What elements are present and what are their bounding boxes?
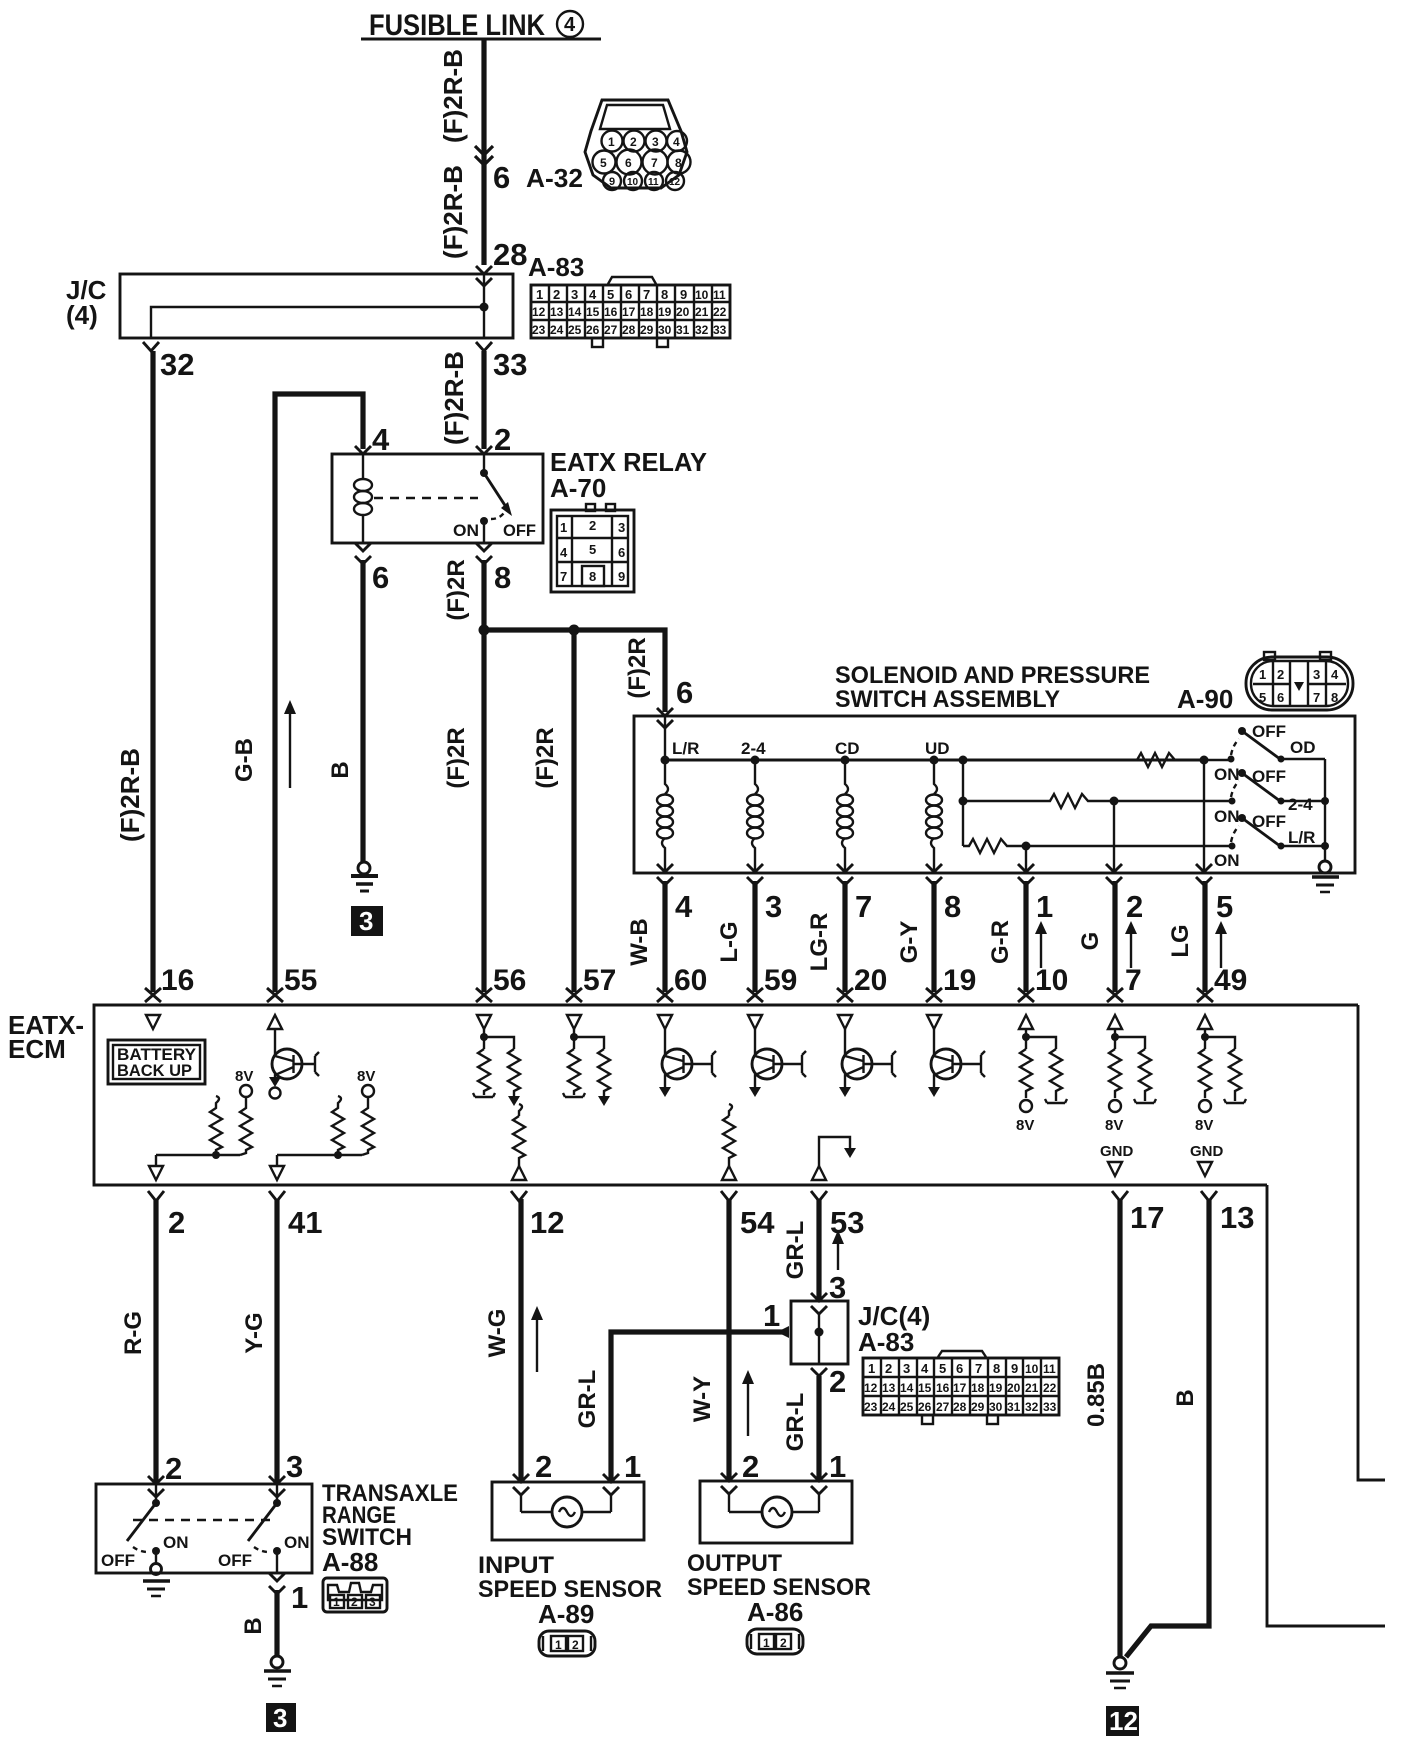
svg-text:26: 26 — [918, 1400, 932, 1414]
node triangle pin60 — [658, 1015, 672, 1029]
svg-text:32: 32 — [695, 323, 709, 337]
svg-text:2: 2 — [168, 1205, 185, 1240]
svg-text:A-88: A-88 — [322, 1547, 378, 1577]
svg-text:7: 7 — [855, 889, 872, 924]
svg-text:12: 12 — [532, 305, 546, 319]
svg-text:(F)2R: (F)2R — [443, 559, 470, 620]
svg-text:5: 5 — [1216, 889, 1233, 924]
node pin53 internal hook — [812, 1137, 856, 1180]
svg-text:26: 26 — [586, 323, 600, 337]
resistor group pin56 — [473, 1029, 520, 1106]
svg-text:3: 3 — [286, 1449, 303, 1484]
svg-text:(F)2R-B: (F)2R-B — [439, 351, 469, 445]
node wire 55 end cross — [267, 988, 283, 1002]
svg-text:OFF: OFF — [503, 521, 536, 540]
wire R-G pin2 to transaxle switch — [153, 1199, 158, 1484]
svg-text:10: 10 — [627, 177, 639, 188]
svg-text:5: 5 — [589, 542, 596, 557]
connector icon A-86 — [747, 1629, 803, 1654]
svg-text:W-G: W-G — [484, 1309, 511, 1358]
svg-text:30: 30 — [989, 1400, 1003, 1414]
ECM EATX-ECM box outline — [94, 1005, 1358, 1185]
node J/C bottom exit — [811, 1368, 827, 1376]
solenoid coil UD — [926, 760, 942, 873]
svg-text:33: 33 — [713, 323, 727, 337]
node GND pin17 — [1100, 1143, 1134, 1176]
node dot RB — [334, 1151, 342, 1159]
label EATX-ECM — [8, 1010, 84, 1064]
svg-text:6: 6 — [1277, 690, 1284, 705]
svg-text:30: 30 — [658, 323, 672, 337]
svg-text:6: 6 — [625, 287, 632, 302]
svg-text:L-G: L-G — [716, 921, 743, 962]
svg-text:B: B — [327, 761, 354, 778]
svg-text:4: 4 — [372, 422, 390, 457]
resistor group pin57 — [563, 1029, 610, 1106]
resistor OD row — [1133, 753, 1179, 767]
wire W-B — [662, 881, 667, 992]
svg-text:1: 1 — [1259, 667, 1266, 682]
svg-text:3: 3 — [369, 1595, 376, 1609]
label TRANSAXLE RANGE SWITCH A-88 — [322, 1480, 458, 1577]
wire L/R row right — [1011, 845, 1232, 847]
pressure switch 2-4 — [1214, 767, 1325, 826]
svg-text:GND: GND — [1190, 1143, 1224, 1160]
svg-text:1: 1 — [624, 1449, 641, 1484]
solenoid coil 2-4 — [747, 760, 763, 873]
relay switch — [453, 454, 536, 543]
wire RA bottom to pin2 — [156, 1154, 240, 1156]
wire LG-R — [842, 881, 847, 992]
ground bottom right — [1106, 1657, 1134, 1688]
svg-text:2: 2 — [630, 135, 637, 149]
svg-text:5: 5 — [607, 287, 614, 302]
svg-text:55: 55 — [284, 964, 317, 997]
svg-text:24: 24 — [550, 323, 564, 337]
svg-text:4: 4 — [560, 545, 568, 560]
svg-text:G-Y: G-Y — [896, 921, 923, 964]
wire pin1 vertical — [1025, 846, 1027, 873]
svg-text:G-R: G-R — [987, 920, 1014, 964]
transistor Q60 — [659, 1029, 716, 1097]
node triangle pin16 — [146, 1015, 160, 1029]
svg-text:GR-L: GR-L — [782, 1221, 809, 1280]
svg-text:8V: 8V — [1016, 1117, 1034, 1134]
ground below switch pin1 — [264, 1656, 291, 1686]
svg-text:R-G: R-G — [120, 1311, 147, 1355]
svg-text:27: 27 — [936, 1400, 950, 1414]
node SW2 exit pin1 — [269, 1573, 285, 1594]
svg-text:10: 10 — [1035, 964, 1068, 997]
svg-text:8: 8 — [589, 569, 596, 584]
wire pressure switch right bus — [1324, 759, 1326, 861]
wire from J/C 32 down to ECM 16 — [150, 351, 155, 992]
svg-text:7: 7 — [643, 287, 650, 302]
wire from J/C 33 down to relay pin 2 — [481, 351, 486, 449]
svg-text:ON: ON — [453, 521, 479, 540]
svg-text:8V: 8V — [1105, 1117, 1123, 1134]
input speed sensor box — [492, 1474, 644, 1540]
resistor RB2 — [362, 1097, 374, 1155]
node triangle pin2 bottom — [149, 1155, 163, 1180]
resistor pin12 column — [512, 1104, 526, 1180]
transistor Q55 — [269, 1029, 319, 1099]
node page reference 3 (top) — [351, 906, 383, 936]
svg-text:A-83: A-83 — [528, 252, 584, 282]
node dot row2 left — [959, 797, 968, 806]
svg-text:A-32: A-32 — [526, 163, 583, 193]
svg-text:OD: OD — [1290, 738, 1316, 757]
svg-text:22: 22 — [1043, 1381, 1057, 1395]
svg-text:CD: CD — [835, 739, 860, 758]
svg-text:3: 3 — [359, 906, 373, 936]
svg-text:6: 6 — [956, 1361, 963, 1376]
svg-text:(F)2R-B: (F)2R-B — [438, 49, 468, 143]
resistor RA2 — [240, 1097, 252, 1155]
node arrow into J/C — [777, 1326, 789, 1338]
node triangle pin57 — [567, 1015, 581, 1029]
svg-text:6: 6 — [625, 156, 632, 170]
node dot pin5 junction — [1200, 756, 1209, 765]
svg-text:3: 3 — [765, 889, 782, 924]
wire B to ground — [274, 1590, 279, 1656]
connector icon A-89 — [539, 1631, 595, 1656]
svg-text:3: 3 — [273, 1703, 287, 1733]
wire B from relay 6 to ground — [360, 560, 365, 862]
svg-text:8: 8 — [944, 889, 961, 924]
svg-text:2: 2 — [165, 1451, 182, 1486]
svg-text:15: 15 — [918, 1381, 932, 1395]
wire OD row right — [1179, 759, 1231, 761]
wire G-R — [1023, 881, 1028, 992]
svg-text:9: 9 — [609, 176, 615, 188]
svg-text:2: 2 — [1277, 667, 1284, 682]
svg-text:20: 20 — [854, 964, 887, 997]
svg-text:8V: 8V — [357, 1068, 375, 1085]
node ECM bottom exits forks — [148, 1191, 1217, 1201]
svg-text:UD: UD — [925, 739, 950, 758]
node triangle pin19 — [927, 1015, 941, 1029]
switch dashed link — [133, 1519, 270, 1521]
node triangle pin20 — [838, 1015, 852, 1029]
svg-text:1: 1 — [291, 1580, 308, 1615]
svg-text:16: 16 — [936, 1381, 950, 1395]
svg-text:1: 1 — [829, 1449, 846, 1484]
svg-text:10: 10 — [695, 288, 709, 302]
wire GR-L input sensor pin1 to J/C — [611, 1332, 788, 1482]
svg-text:13: 13 — [550, 305, 564, 319]
node solenoid pin 6 entry — [657, 708, 673, 728]
svg-text:12: 12 — [669, 177, 681, 188]
wire RB bottom to pin41 — [277, 1154, 362, 1156]
node triangle pin56 — [477, 1015, 491, 1029]
svg-text:11: 11 — [648, 177, 659, 188]
svg-text:3: 3 — [652, 135, 659, 149]
svg-text:12: 12 — [1109, 1706, 1138, 1736]
svg-text:9: 9 — [680, 287, 687, 302]
svg-text:SOLENOID AND PRESSURE: SOLENOID AND PRESSURE — [835, 662, 1150, 689]
node triangle pin10 — [1019, 1015, 1033, 1029]
wire 57 down to ECM — [571, 630, 576, 992]
svg-text:10: 10 — [1025, 1362, 1039, 1376]
node page reference 3 (bottom) — [266, 1703, 296, 1733]
node triangle pin55 — [268, 1015, 282, 1029]
wire G — [1112, 881, 1117, 992]
node dot pin2 junction — [1110, 797, 1119, 806]
node junction dot relay8 — [479, 625, 490, 636]
resistor group pin49 — [1195, 1029, 1246, 1134]
svg-text:7: 7 — [651, 156, 658, 170]
node direction arrow beside G-B — [284, 700, 296, 788]
svg-text:49: 49 — [1214, 964, 1247, 997]
node junction dot in J/C — [480, 303, 489, 312]
svg-text:(F)2R: (F)2R — [443, 727, 470, 788]
svg-text:A-90: A-90 — [1177, 684, 1233, 714]
svg-text:A-86: A-86 — [747, 1597, 803, 1627]
node J/C pin 33 exit — [476, 342, 492, 351]
svg-text:33: 33 — [493, 347, 527, 382]
svg-text:Y-G: Y-G — [241, 1312, 268, 1353]
svg-text:20: 20 — [676, 305, 690, 319]
label INPUT SPEED SENSOR A-89 — [478, 1552, 662, 1629]
svg-text:14: 14 — [568, 305, 582, 319]
wire B pin13 — [1126, 1199, 1209, 1657]
svg-text:7: 7 — [560, 569, 567, 584]
svg-text:1: 1 — [763, 1636, 770, 1650]
svg-text:(F)2R-B: (F)2R-B — [438, 165, 468, 259]
svg-text:2: 2 — [351, 1595, 358, 1609]
wire G-Y — [931, 881, 936, 992]
svg-text:1: 1 — [333, 1595, 340, 1609]
wire L-G — [752, 881, 757, 992]
connector icon A-90 — [1246, 652, 1353, 710]
wire pressure switch vertical left — [962, 760, 964, 846]
junction connector J/C(4) A-83 box (bottom) — [791, 1293, 930, 1364]
svg-text:1: 1 — [555, 1638, 562, 1652]
svg-text:ON: ON — [1214, 851, 1240, 870]
svg-text:A-89: A-89 — [538, 1599, 594, 1629]
svg-text:G-B: G-B — [231, 738, 258, 782]
wire from relay 8 down with junction — [481, 560, 486, 992]
solenoid coil L/R — [657, 760, 673, 873]
relay coil — [354, 454, 372, 543]
svg-text:2-4: 2-4 — [741, 739, 766, 758]
node FUSIBLE LINK 4 title — [361, 9, 601, 42]
resistor L/R row — [963, 839, 1011, 853]
svg-text:8: 8 — [661, 287, 668, 302]
svg-text:16: 16 — [604, 305, 618, 319]
svg-text:4: 4 — [673, 135, 680, 149]
svg-text:SWITCH ASSEMBLY: SWITCH ASSEMBLY — [835, 686, 1060, 713]
ECM battery back up box — [108, 1040, 205, 1084]
node page reference 12 — [1106, 1706, 1139, 1736]
node wire 16 end cross — [145, 988, 161, 1002]
pressure switch OD — [1214, 722, 1325, 784]
svg-text:18: 18 — [971, 1381, 985, 1395]
svg-text:54: 54 — [740, 1205, 775, 1240]
wire 0.85B pin17 to ground — [1117, 1199, 1122, 1657]
svg-text:0.85B: 0.85B — [1083, 1363, 1110, 1427]
transistor Q20 — [839, 1029, 896, 1097]
transistor Q19 — [928, 1029, 985, 1097]
svg-text:25: 25 — [568, 323, 582, 337]
svg-text:19: 19 — [658, 305, 672, 319]
svg-text:19: 19 — [943, 964, 976, 997]
svg-text:ON: ON — [1214, 807, 1240, 826]
svg-text:9: 9 — [618, 569, 625, 584]
node dot RA — [212, 1151, 220, 1159]
node arrow beside LG — [1215, 921, 1227, 968]
svg-text:25: 25 — [900, 1400, 914, 1414]
svg-text:INPUT: INPUT — [478, 1552, 554, 1579]
resistor pin54 column — [722, 1104, 736, 1180]
svg-text:6: 6 — [618, 545, 625, 560]
svg-text:1: 1 — [536, 287, 543, 302]
svg-text:5: 5 — [1259, 690, 1266, 705]
transistor Q59 — [749, 1029, 806, 1097]
svg-text:1: 1 — [1036, 889, 1053, 924]
svg-text:(F)2R-B: (F)2R-B — [115, 748, 145, 842]
svg-text:(4): (4) — [66, 300, 98, 330]
svg-text:L/R: L/R — [1288, 828, 1315, 847]
svg-text:56: 56 — [493, 964, 526, 997]
wire ECM bottom off-page — [1267, 1185, 1385, 1626]
node 8V circle B — [362, 1085, 374, 1097]
svg-text:13: 13 — [1220, 1200, 1254, 1235]
ground SW1 — [143, 1564, 170, 1597]
wire Y-G pin41 to transaxle switch — [274, 1199, 279, 1484]
svg-text:6: 6 — [493, 160, 510, 195]
node relay pin 6 exit — [355, 543, 371, 564]
svg-text:A-70: A-70 — [550, 473, 606, 503]
svg-text:3: 3 — [618, 520, 625, 535]
svg-text:21: 21 — [695, 305, 709, 319]
wire 2-4 row — [963, 800, 1046, 802]
svg-text:3: 3 — [1313, 667, 1320, 682]
svg-text:W-Y: W-Y — [689, 1376, 716, 1422]
wire junction horizontal to solenoid — [484, 630, 665, 712]
svg-text:OFF: OFF — [218, 1551, 252, 1570]
svg-text:20: 20 — [1007, 1381, 1021, 1395]
svg-text:4: 4 — [921, 1361, 929, 1376]
svg-text:60: 60 — [674, 964, 707, 997]
svg-text:G: G — [1077, 932, 1104, 951]
svg-text:11: 11 — [1043, 1362, 1056, 1376]
wire ECM right edge off-page — [1358, 1005, 1385, 1480]
svg-text:1: 1 — [560, 520, 567, 535]
node arrow beside G-R — [1035, 921, 1047, 968]
svg-text:41: 41 — [288, 1205, 322, 1240]
svg-text:2: 2 — [1126, 889, 1143, 924]
pressure switch L/R — [1214, 812, 1325, 870]
svg-text:2: 2 — [572, 1638, 579, 1652]
svg-text:1: 1 — [868, 1361, 875, 1376]
node dot pin1 junction — [1022, 842, 1031, 851]
svg-text:18: 18 — [640, 305, 654, 319]
svg-text:2: 2 — [885, 1361, 892, 1376]
wire GR-L pin53 to J/C — [816, 1199, 821, 1301]
resistor RA1 — [210, 1096, 222, 1153]
svg-text:OFF: OFF — [101, 1551, 135, 1570]
svg-text:2: 2 — [589, 518, 596, 533]
svg-text:8V: 8V — [1195, 1117, 1213, 1134]
svg-text:17: 17 — [953, 1381, 967, 1395]
node solenoid exits row — [657, 864, 1212, 885]
node GND pin13 — [1190, 1143, 1224, 1176]
svg-text:32: 32 — [160, 347, 194, 382]
transaxle range switch box — [96, 1476, 312, 1573]
wire pin5 vertical — [1203, 760, 1205, 873]
svg-text:5: 5 — [939, 1361, 946, 1376]
wire W-Y pin54 to output sensor — [726, 1199, 731, 1481]
junction connector J/C(4) box — [66, 266, 513, 338]
relay EATX RELAY A-70 box — [332, 446, 707, 543]
ground pressure switch — [1312, 861, 1339, 892]
output speed sensor box — [700, 1473, 852, 1543]
svg-text:2: 2 — [494, 422, 511, 457]
svg-text:3: 3 — [571, 287, 578, 302]
svg-text:8: 8 — [675, 156, 682, 170]
solenoid assembly box — [634, 716, 1355, 873]
wire G-B from relay pin 4 to ECM 55 — [275, 394, 363, 992]
svg-text:17: 17 — [622, 305, 636, 319]
connector A-32 pin 6 inline marker — [475, 146, 493, 165]
svg-text:17: 17 — [1130, 1200, 1164, 1235]
svg-text:4: 4 — [1331, 667, 1339, 682]
svg-text:LG-R: LG-R — [806, 913, 833, 972]
connector icon A-88 — [323, 1578, 387, 1612]
switch SW1 in transaxle — [101, 1484, 189, 1570]
svg-text:2: 2 — [780, 1636, 787, 1650]
resistor 2-4 row — [1046, 794, 1092, 808]
svg-text:ON: ON — [163, 1533, 189, 1552]
svg-text:2: 2 — [535, 1449, 552, 1484]
svg-text:5: 5 — [600, 156, 607, 170]
svg-text:7: 7 — [1313, 690, 1320, 705]
node ends cross marks solenoid wires — [657, 988, 1213, 1002]
node relay pin 8 exit — [476, 543, 492, 564]
svg-text:OFF: OFF — [1252, 722, 1286, 741]
svg-text:OFF: OFF — [1252, 812, 1286, 831]
svg-text:3: 3 — [903, 1361, 910, 1376]
svg-text:6: 6 — [676, 675, 693, 710]
svg-text:ON: ON — [284, 1533, 310, 1552]
relay dashed link — [374, 497, 478, 499]
node arrow beside W-G — [531, 1306, 543, 1372]
svg-text:12: 12 — [530, 1205, 564, 1240]
svg-text:2-4: 2-4 — [1288, 795, 1313, 814]
resistor group pin10 — [1016, 1029, 1067, 1134]
svg-text:16: 16 — [161, 964, 194, 997]
connector A-83 pin grid (top) — [531, 277, 730, 347]
svg-text:B: B — [240, 1617, 267, 1634]
node bus dots — [661, 756, 968, 765]
svg-text:14: 14 — [900, 1381, 914, 1395]
svg-text:9: 9 — [1011, 1361, 1018, 1376]
svg-text:6: 6 — [372, 560, 389, 595]
node junction dot 57 — [569, 625, 580, 636]
svg-text:GND: GND — [1100, 1143, 1134, 1160]
svg-text:1: 1 — [763, 1298, 780, 1333]
node J/C pin 32 exit — [143, 342, 159, 351]
svg-text:OUTPUT: OUTPUT — [687, 1550, 782, 1577]
wire W-G pin12 to input sensor — [518, 1199, 523, 1482]
svg-text:W-B: W-B — [626, 918, 653, 966]
svg-text:31: 31 — [1007, 1400, 1021, 1414]
node arrow beside W-Y — [742, 1370, 754, 1436]
switch SW2 in transaxle — [218, 1484, 310, 1573]
svg-text:29: 29 — [640, 323, 654, 337]
